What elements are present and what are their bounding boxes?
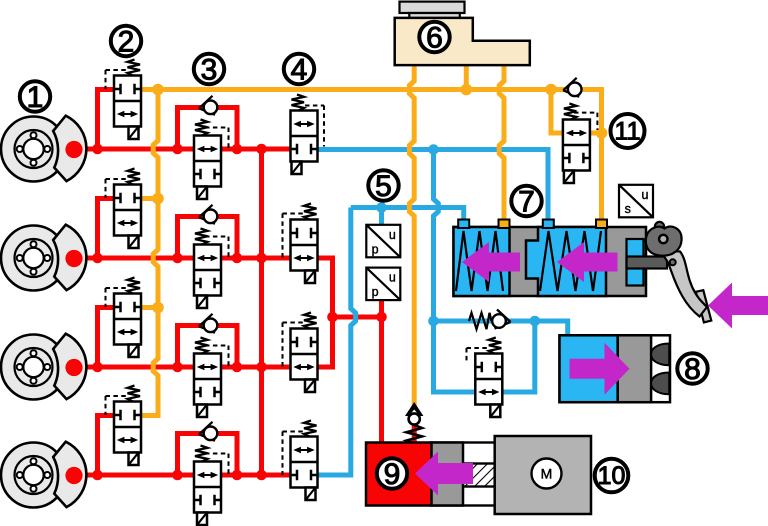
- pedal head: [646, 227, 682, 256]
- node bypass left row 3: [172, 362, 183, 373]
- label 7 master cylinder: [511, 185, 541, 218]
- solenoid valve U11: [563, 104, 598, 184]
- accumulator gas chamber bellows: [651, 344, 669, 366]
- node orange riser row 3: [152, 302, 164, 314]
- svg-text:5: 5: [375, 170, 392, 203]
- node pump junction right: [376, 312, 387, 323]
- node bypass right row 4: [232, 470, 243, 481]
- node orange riser row 1: [152, 84, 164, 96]
- wire stub to pressure sensor 2: [379, 300, 384, 317]
- master cylinder port (blue) chamber 1: [458, 220, 469, 229]
- inlet solenoid valve row 2 (type 2): [106, 169, 142, 249]
- wire outlet valve row 2 to pump junction: [317, 258, 333, 317]
- wire return drop line: [434, 150, 439, 322]
- wire feed to inlet valve row 3: [98, 308, 115, 368]
- wire feed to inlet valve row 1: [98, 90, 115, 150]
- check valve with spring on accumulator line: [469, 313, 492, 329]
- node reservoir bus valve 11 branch: [545, 84, 557, 96]
- wire check-valve bypass loop row 1: [178, 108, 238, 150]
- node trunk row 3: [256, 362, 267, 373]
- node caliper feed row 1: [92, 144, 103, 155]
- piston force arrow 2: [557, 242, 618, 282]
- brake disc and caliper 1: [1, 116, 86, 182]
- label 3 isolation valves: [194, 53, 224, 86]
- node trunk row 2: [256, 253, 267, 264]
- pump piston: [432, 443, 464, 506]
- svg-text:u: u: [389, 228, 396, 242]
- node bypass left row 2: [172, 253, 183, 264]
- wire check-valve bypass loop row 3: [178, 326, 238, 368]
- node bypass right row 2: [232, 253, 243, 264]
- wire pump check valve to pump: [412, 421, 417, 445]
- label 8 accumulator: [677, 353, 707, 386]
- svg-text:1: 1: [27, 81, 44, 114]
- wire reservoir middle stub: [464, 65, 469, 90]
- electric motor housing (10): [495, 436, 591, 514]
- wire return riser to outlet valve row 4: [317, 208, 356, 476]
- wire reservoir line to pump check valve: [409, 65, 414, 406]
- svg-text:p: p: [372, 285, 379, 299]
- brake disc and caliper 3: [1, 334, 86, 400]
- isolation solenoid valve row 4 (type 3): [194, 446, 229, 526]
- pedal head hole: [659, 235, 667, 243]
- node pump junction left: [327, 312, 338, 323]
- wire stub to pressure sensor 1: [379, 208, 384, 225]
- wire outlet valve row 3 to pump junction: [317, 317, 333, 367]
- outlet solenoid valve row 4 (type 4): [283, 421, 318, 501]
- wire feed to inlet valve row 2: [98, 199, 115, 259]
- fluid reservoir body (6): [395, 18, 530, 65]
- node sensor 1 tap: [376, 202, 387, 213]
- svg-text:u: u: [389, 271, 396, 285]
- node valve 11 outlet: [596, 127, 608, 139]
- svg-text:11: 11: [615, 118, 641, 146]
- node orange riser row 2: [152, 193, 164, 205]
- wire inlet valve row 2 return stub: [141, 196, 159, 201]
- fluid reservoir cap: [400, 2, 465, 13]
- pedal force arrow: [708, 283, 768, 329]
- check valve at reservoir bus: [563, 78, 579, 97]
- svg-text:u: u: [642, 188, 649, 202]
- wire bypass valve loop right: [502, 321, 534, 392]
- motor symbol M: [532, 459, 562, 489]
- svg-text:p: p: [372, 242, 379, 256]
- brake disc and caliper 4: [1, 442, 86, 508]
- wire reservoir bus: [141, 90, 602, 220]
- node return row 1: [428, 144, 439, 155]
- pump piston rod (hatched): [432, 464, 495, 487]
- wire brake line row 2: [84, 256, 291, 261]
- node bypass right row 1: [232, 144, 243, 155]
- wire brake line row 4: [84, 473, 291, 478]
- wire pump junction link: [333, 315, 382, 320]
- wire low pressure line to accumulator: [434, 321, 568, 335]
- wire orange riser to inlet valves: [141, 90, 159, 416]
- svg-text:M: M: [541, 466, 553, 482]
- piston force arrow 1: [462, 242, 520, 282]
- wire reservoir line to master cylinder port: [499, 65, 504, 220]
- accumulator housing (8): [560, 335, 671, 402]
- master cylinder housing (7): [454, 227, 647, 296]
- label 11 pilot valve: [611, 114, 645, 148]
- node reservoir bus middle: [461, 84, 473, 96]
- travel sensor s/u: [619, 185, 653, 218]
- outlet solenoid valve row 3 (type 4): [283, 313, 318, 393]
- brake disc and caliper 2: [1, 225, 86, 291]
- pedal pivot ear: [655, 222, 664, 231]
- label 5 pressure sensors: [368, 170, 398, 203]
- wire bypass valve loop left: [434, 321, 476, 392]
- wire brake line row 3: [84, 365, 291, 370]
- master cylinder port (blue) chamber 2: [543, 220, 554, 229]
- wire return line to master cylinder port 1: [351, 208, 464, 220]
- inlet solenoid valve row 1 (type 2): [106, 60, 142, 140]
- node accumulator line right: [530, 316, 541, 327]
- node trunk row 1: [256, 144, 267, 155]
- node caliper feed row 2: [92, 253, 103, 264]
- pump suction check valve: [405, 402, 423, 416]
- master cylinder port (orange) chamber 2: [596, 220, 607, 229]
- label 9 pump: [377, 458, 407, 491]
- pump body (9): [366, 443, 432, 506]
- node caliper feed row 4: [92, 470, 103, 481]
- pump piston arrow: [415, 452, 473, 496]
- wire check-valve bypass loop row 4: [178, 434, 238, 476]
- wire valve 11 outlet: [590, 131, 602, 136]
- svg-text:4: 4: [291, 53, 308, 86]
- master cylinder port (orange) chamber 1: [499, 220, 510, 229]
- wire red supply trunk: [259, 149, 264, 475]
- wire branch to valve 11: [551, 90, 563, 134]
- pedal pushrod pivot: [670, 259, 676, 265]
- accumulator piston: [618, 335, 651, 402]
- svg-text:9: 9: [384, 458, 401, 491]
- svg-text:6: 6: [426, 21, 443, 54]
- node caliper feed row 3: [92, 362, 103, 373]
- isolation solenoid valve row 3 (type 3): [194, 338, 229, 418]
- pedal lever arm: [663, 251, 708, 317]
- isolation solenoid valve row 1 (type 3): [194, 120, 229, 200]
- pressure sensor p/u 2: [366, 268, 400, 301]
- check valve bypass row 4: [199, 422, 215, 441]
- bypass solenoid valve (accumulator line): [467, 338, 503, 418]
- label 1 brake: [20, 81, 50, 114]
- pushrod slot: [627, 239, 644, 286]
- label 4 outlet valves: [284, 53, 314, 86]
- inlet solenoid valve row 3 (type 2): [106, 278, 142, 358]
- node bypass left row 1: [172, 144, 183, 155]
- inlet solenoid valve row 4 (type 2): [106, 386, 142, 466]
- node accumulator line left: [428, 316, 439, 327]
- label 10 motor: [595, 459, 629, 493]
- svg-text:7: 7: [518, 185, 535, 218]
- wire return line row 1 to master cylinder: [317, 150, 549, 220]
- check valve bypass row 1: [199, 96, 215, 115]
- wire inlet valve row 3 return stub: [141, 305, 159, 310]
- outlet solenoid valve row 2 (type 4): [283, 204, 318, 284]
- svg-text:2: 2: [118, 25, 135, 58]
- master cylinder spring 2: [540, 231, 601, 291]
- svg-text:3: 3: [201, 53, 218, 86]
- wire feed to inlet valve row 4: [98, 416, 115, 476]
- master cylinder spring 1: [456, 231, 503, 291]
- node trunk row 4: [256, 470, 267, 481]
- svg-text:s: s: [625, 202, 631, 216]
- pressure sensor p/u 1: [366, 225, 400, 257]
- pushrod: [627, 257, 668, 269]
- master cylinder chamber 2: [526, 227, 606, 296]
- svg-text:10: 10: [598, 462, 626, 490]
- accumulator fluid side: [560, 335, 618, 402]
- wire check-valve bypass loop row 2: [178, 217, 238, 259]
- master cylinder chamber 1: [454, 227, 510, 296]
- pedal foot pad: [696, 290, 712, 322]
- check valve bypass row 3: [199, 314, 215, 333]
- node bypass right row 3: [232, 362, 243, 373]
- label 6 reservoir: [419, 21, 449, 54]
- label 2 inlet valves: [111, 25, 141, 58]
- svg-text:8: 8: [684, 353, 701, 386]
- node bypass left row 4: [172, 470, 183, 481]
- accumulator piston arrow: [570, 343, 630, 395]
- wire pump suction line: [379, 317, 384, 446]
- pump cylinder bore: [432, 443, 495, 506]
- check valve bypass row 2: [199, 205, 215, 224]
- wire brake line row 1: [84, 147, 291, 152]
- outlet solenoid valve row 1 (type 4): [291, 95, 325, 175]
- isolation solenoid valve row 2 (type 3): [194, 229, 229, 309]
